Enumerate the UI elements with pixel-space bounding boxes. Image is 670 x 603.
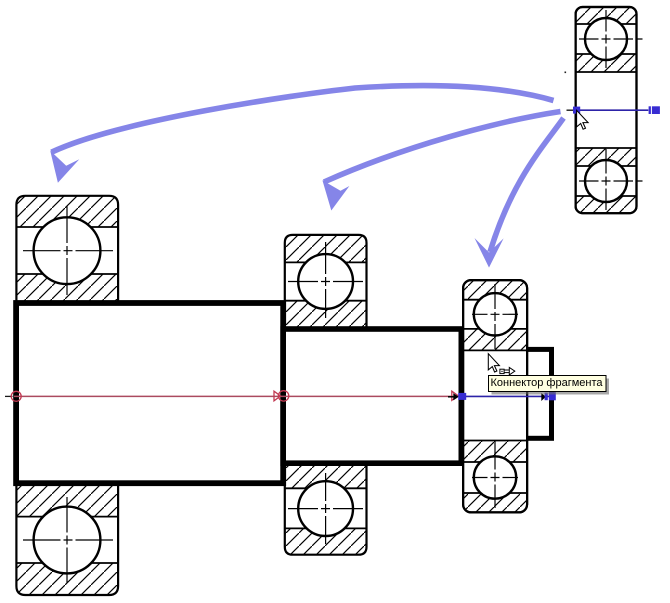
- bearing B1' race line lower: [16, 562, 118, 564]
- bearing B1 race line lower: [16, 273, 118, 275]
- bearing F bottom center cross: [605, 149, 607, 210]
- bearing B2 top inner-ring hatch: [285, 301, 367, 328]
- bearing B1' outer-ring hatch: [16, 563, 118, 595]
- bearing B1' outline: [16, 485, 118, 595]
- bearing B1' inner-ring hatch: [16, 486, 118, 517]
- connector handle bar+square right: [545, 393, 548, 401]
- bearing B3 bottom race lines: [463, 440, 527, 442]
- cursor 1 (at fragment): [577, 110, 589, 129]
- connector line: [462, 395, 549, 397]
- bearing F top ball: [585, 18, 627, 60]
- fragment axis overhang: [567, 109, 575, 111]
- bearing B1' race line upper: [16, 516, 118, 518]
- axis overhang left: [5, 395, 13, 397]
- bearing B2' outer-ring hatch: [285, 528, 367, 554]
- cursor 2 (at right bearing): [488, 354, 499, 372]
- tooltip box: [489, 376, 607, 392]
- node marker right triangle: [452, 391, 458, 400]
- fragment blue line: [579, 109, 648, 111]
- bearing B2 center cross: [325, 242, 327, 318]
- bearing B1 center cross: [66, 206, 68, 295]
- tooltip shadow: [492, 379, 610, 395]
- bearing B1 ball: [34, 217, 101, 284]
- bearing B2' race line lower: [285, 527, 367, 529]
- arrow A1 tail: [52, 86, 554, 153]
- bearing F bottom race lines: [576, 147, 637, 149]
- bearing B2 top outer-ring hatch: [285, 235, 367, 263]
- arrow A3 head: [475, 238, 504, 268]
- bearing B3 top outer-ring hatch: [463, 280, 527, 300]
- bearing F top center cross: [605, 10, 607, 71]
- bearing F top inner-ring hatch: [576, 54, 637, 72]
- bearing F bottom inner-ring hatch: [576, 148, 637, 166]
- bearing F bottom outer-ring hatch: [576, 196, 637, 213]
- node marker left circle: [11, 391, 21, 401]
- bearing B1' center cross: [66, 497, 68, 584]
- bearing B1 race line upper: [16, 226, 118, 228]
- bearing B1 top inner-ring hatch: [16, 274, 118, 305]
- bearing F top outer-ring hatch: [576, 7, 637, 24]
- bearing B2' inner-ring hatch: [285, 466, 367, 489]
- cursor 2 connector badge: [500, 369, 504, 373]
- bearing B2' ball: [298, 481, 353, 536]
- axis centerline: [14, 395, 453, 397]
- bearing F bottom ball: [585, 160, 627, 202]
- node marker mid circle: [278, 391, 288, 401]
- fragment handle square left: [573, 107, 580, 114]
- bearing B3 outline redraw: [463, 280, 527, 512]
- arrow A3 tail: [490, 118, 564, 252]
- bearing B3 bottom ball: [474, 456, 516, 498]
- arrow A2 head: [322, 180, 349, 210]
- grid dot artifact: [565, 72, 567, 74]
- bearing B3 bottom center cross: [494, 441, 496, 508]
- axis black arrow mid: [448, 396, 454, 398]
- bearing B1 outline: [16, 196, 118, 306]
- bearing B2' center cross: [325, 473, 327, 546]
- bearing B2 race line lower: [285, 300, 367, 302]
- arrow A1 head: [50, 151, 79, 183]
- bearing B2' race line upper: [285, 487, 367, 489]
- bearing B3 top inner-ring hatch: [463, 329, 527, 351]
- bearing B2 ball: [298, 254, 353, 309]
- bearing B2 race line upper: [285, 261, 367, 263]
- bearing B2 outline: [285, 235, 367, 328]
- bearing B3 top race lines: [463, 299, 527, 301]
- bearing B1 top outer-ring hatch: [16, 196, 118, 227]
- fragment handle bar+square right: [649, 106, 651, 114]
- bearing B1' ball: [34, 507, 101, 574]
- bearing B3 top center cross: [494, 284, 496, 351]
- connector black arrow right: [541, 393, 546, 401]
- svg-text:Коннектор фрагмента: Коннектор фрагмента: [491, 377, 604, 389]
- bearing B3 top ball: [474, 293, 516, 335]
- bearing B3 bottom inner-ring hatch: [463, 441, 527, 463]
- node marker mid triangle: [274, 391, 281, 401]
- bearing F outline redraw: [576, 7, 637, 213]
- bearing B3 bottom outer-ring hatch: [463, 493, 527, 512]
- bearing B2' outline: [285, 464, 367, 555]
- arrow A2 tail: [324, 112, 561, 183]
- bearing F body: [576, 7, 637, 213]
- bearing F top race lines: [576, 23, 637, 25]
- connector handle square left: [458, 393, 466, 400]
- bearing B3 body: [463, 280, 527, 512]
